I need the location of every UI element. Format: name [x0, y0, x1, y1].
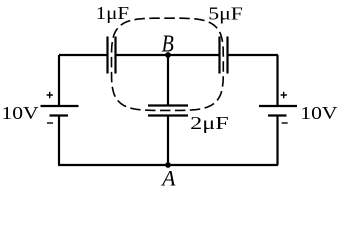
svg-text:2μF: 2μF [190, 113, 229, 133]
svg-text:5μF: 5μF [208, 3, 243, 23]
svg-text:10V: 10V [1, 103, 38, 123]
svg-text:10V: 10V [300, 103, 337, 123]
svg-text:A: A [160, 165, 176, 190]
svg-text:B: B [162, 30, 174, 58]
svg-text:1μF: 1μF [96, 3, 130, 23]
